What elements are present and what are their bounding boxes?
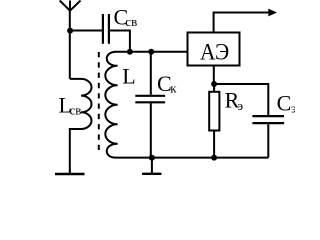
svg-text:св: св bbox=[70, 102, 82, 117]
svg-text:С: С bbox=[277, 91, 292, 116]
svg-text:св: св bbox=[125, 14, 137, 29]
svg-text:АЭ: АЭ bbox=[200, 39, 229, 65]
svg-text:э: э bbox=[291, 100, 295, 115]
svg-text:к: к bbox=[170, 80, 177, 95]
svg-text:э: э bbox=[238, 98, 244, 113]
svg-text:L: L bbox=[122, 64, 135, 89]
